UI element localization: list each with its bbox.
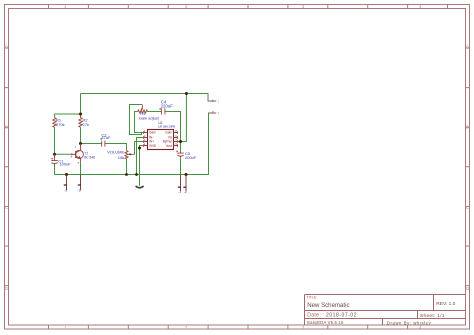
svg-text:B: B — [5, 125, 8, 130]
svg-text:Vout: Vout — [166, 144, 172, 148]
svg-text:2: 2 — [218, 111, 220, 115]
svg-text:D: D — [5, 286, 8, 291]
svg-text:b: b — [71, 155, 73, 159]
svg-text:-2: -2 — [78, 189, 81, 193]
svg-text:A: A — [466, 44, 469, 49]
svg-text:47uF: 47uF — [101, 135, 111, 140]
svg-text:Sheet: 1/1: Sheet: 1/1 — [420, 313, 445, 319]
svg-text:Date:: Date: — [307, 312, 321, 318]
svg-text:2: 2 — [212, 110, 214, 114]
svg-text:10k: 10k — [118, 155, 124, 160]
svg-text:c: c — [75, 144, 77, 148]
svg-text:C: C — [5, 205, 8, 210]
svg-text:A: A — [5, 44, 8, 49]
svg-text:B: B — [466, 125, 469, 130]
svg-text:REV: 1.0: REV: 1.0 — [436, 301, 455, 307]
svg-text:2018-07-02: 2018-07-02 — [326, 312, 357, 318]
svg-text:-1: -1 — [64, 189, 67, 193]
svg-text:Gain: Gain — [165, 131, 172, 135]
svg-text:LM 386 DIP8: LM 386 DIP8 — [158, 125, 176, 129]
svg-text:Gain: Gain — [149, 131, 156, 135]
svg-text:-1: -1 — [178, 190, 181, 194]
svg-text:-2: -2 — [184, 190, 187, 194]
svg-text:Gain adjust: Gain adjust — [139, 115, 160, 120]
svg-text:EasyEDA V5.5.15: EasyEDA V5.5.15 — [307, 320, 344, 325]
svg-text:270k: 270k — [56, 122, 65, 127]
svg-text:100uF: 100uF — [59, 161, 71, 166]
svg-text:200uF: 200uF — [185, 155, 197, 160]
svg-text:C: C — [466, 205, 469, 210]
svg-text:e: e — [78, 160, 80, 164]
svg-text:GND: GND — [149, 144, 157, 148]
svg-text:Drawn By: whisley: Drawn By: whisley — [387, 320, 432, 325]
svg-text:D: D — [466, 286, 469, 291]
svg-text:New Schematic: New Schematic — [307, 302, 349, 309]
svg-text:TITLE:: TITLE: — [307, 296, 318, 300]
svg-text:220uF: 220uF — [161, 103, 173, 108]
svg-text:1: 1 — [212, 99, 214, 103]
svg-text:27k: 27k — [83, 122, 89, 127]
svg-text:1: 1 — [218, 99, 220, 103]
svg-text:BC 548: BC 548 — [84, 155, 95, 159]
